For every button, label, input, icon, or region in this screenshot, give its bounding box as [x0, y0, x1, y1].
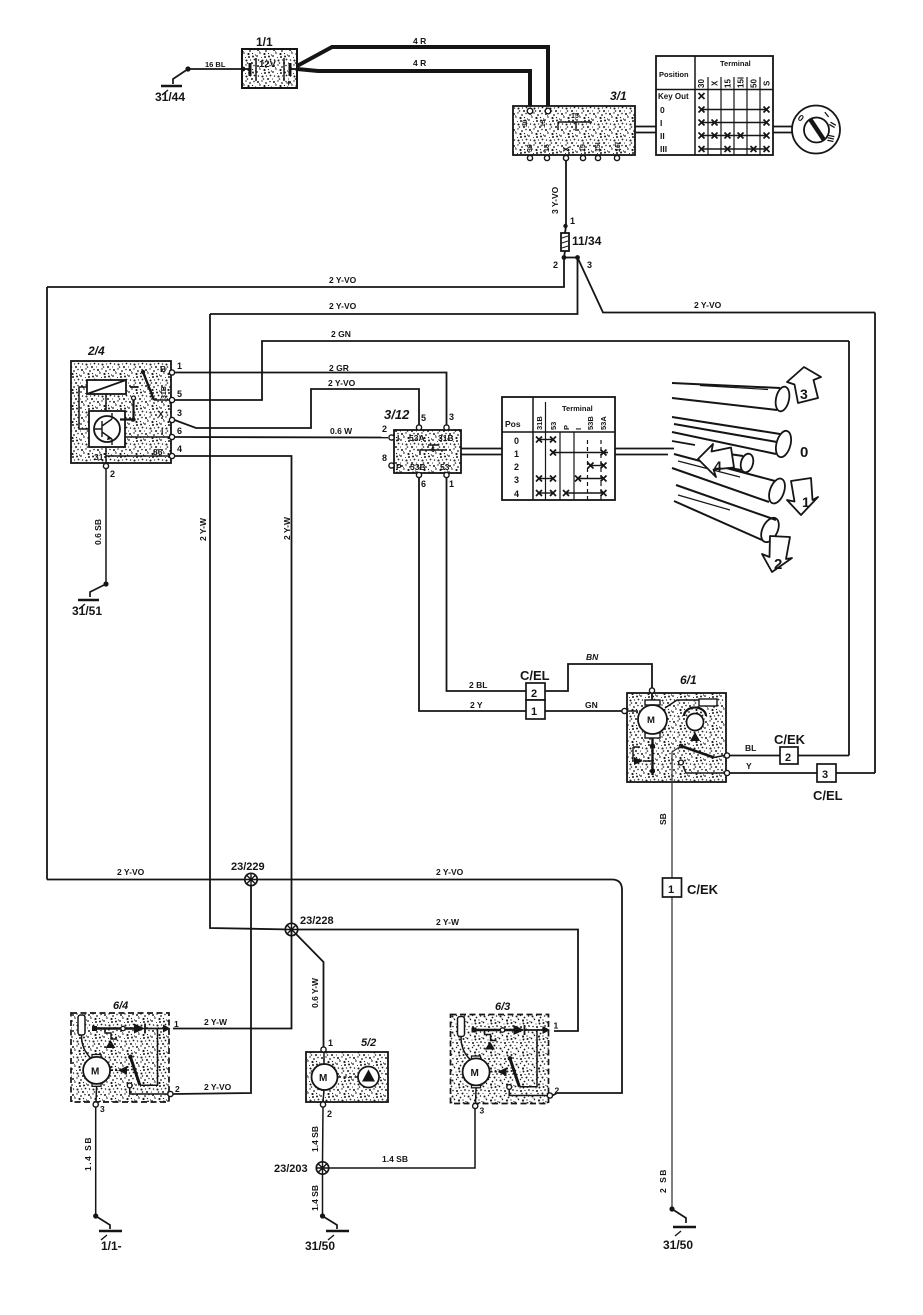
svg-text:1: 1	[531, 706, 537, 718]
arrow 3 up	[787, 367, 821, 403]
svg-text:P: P	[562, 425, 571, 430]
arrow 1 down	[787, 478, 818, 515]
wire 2 Y-VO node3 diagonal right section to x875	[578, 258, 876, 313]
wire Y 6/1 to C/EL 3	[730, 761, 818, 773]
svg-text:5: 5	[177, 389, 182, 399]
node 3 below fuse	[564, 255, 592, 270]
svg-text:8: 8	[382, 453, 387, 463]
wiper position table	[502, 397, 615, 500]
6/1 park switch	[679, 744, 684, 749]
junction 23/228	[285, 915, 333, 936]
svg-text:1: 1	[328, 1038, 333, 1048]
svg-text:1.4 SB: 1.4 SB	[310, 1126, 320, 1152]
wire 2 Y-VO 2/4 pin3 to 3/12 pin5	[175, 378, 420, 428]
svg-text:2 GR: 2 GR	[329, 363, 349, 373]
svg-text:1: 1	[174, 1019, 179, 1029]
6/1 diode arrow	[633, 747, 640, 761]
connector C/EK 2	[774, 732, 849, 764]
svg-text:1: 1	[668, 884, 674, 896]
svg-text:15: 15	[724, 79, 733, 88]
svg-text:II: II	[660, 131, 665, 141]
wire 2 Y-VO node3 left section to x210	[210, 258, 578, 315]
svg-text:1/1: 1/1	[256, 35, 273, 49]
arrow 2 down	[762, 536, 792, 573]
wire 0.6 SB 2/4 pin2 to ground	[93, 469, 106, 585]
svg-text:I: I	[574, 428, 583, 430]
6/1 park cam	[684, 708, 706, 716]
svg-text:15I: 15I	[615, 141, 622, 152]
connector C/EL 1	[526, 700, 545, 719]
wire 1.4 SB 23/203 to 6/3 pin3	[329, 1108, 475, 1168]
svg-text:4: 4	[177, 444, 182, 454]
svg-text:1: 1	[449, 479, 454, 489]
svg-text:15: 15	[580, 144, 587, 152]
2/4 pins	[169, 370, 174, 375]
svg-text:2 BL: 2 BL	[469, 680, 487, 690]
svg-text:3/12: 3/12	[384, 407, 410, 422]
wire 16 BL ground to battery	[188, 60, 242, 69]
wire GN C/EL1 to 6/1 left pin	[545, 700, 622, 711]
connector C/EL 3	[813, 764, 875, 803]
svg-text:X: X	[158, 409, 164, 419]
svg-text:16 BL: 16 BL	[205, 60, 226, 69]
svg-text:3: 3	[177, 408, 182, 418]
stalk position 2	[674, 485, 776, 540]
2/4 coil	[87, 380, 126, 394]
wire 2 GR 2/4 pin1 to 3/12 pin3	[175, 363, 447, 425]
svg-text:31B: 31B	[161, 386, 168, 399]
svg-text:2 Y-W: 2 Y-W	[198, 517, 208, 541]
svg-text:15: 15	[540, 119, 547, 127]
svg-text:30: 30	[522, 119, 529, 127]
wire table to key cylinder (double line)	[773, 127, 793, 133]
wire 2 Y-W 2/4 pin4 down bus x291	[175, 456, 293, 930]
relay 2/4	[71, 344, 182, 479]
svg-text:30: 30	[527, 144, 534, 152]
svg-text:C/EK: C/EK	[774, 732, 806, 747]
svg-text:2: 2	[327, 1109, 332, 1119]
bus 2 Y-VO vertical x875	[874, 313, 876, 774]
svg-text:31/44: 31/44	[155, 90, 185, 104]
svg-text:M: M	[91, 1067, 99, 1078]
svg-text:1.4 SB: 1.4 SB	[382, 1154, 408, 1164]
key cylinder icon	[792, 106, 840, 154]
junction 23/229	[231, 861, 265, 886]
wire 2 Y-VO horizontal y879	[47, 867, 622, 1096]
svg-text:2 Y-VO: 2 Y-VO	[436, 867, 464, 877]
wire 0.6 Y-W 23/228 to washer pump 5/2	[296, 934, 324, 1047]
svg-text:C/EL: C/EL	[520, 668, 550, 683]
wire 4 R lower battery to 3/1 pin 15	[297, 58, 530, 109]
svg-text:0.6 W: 0.6 W	[330, 426, 353, 436]
svg-text:53B: 53B	[410, 462, 426, 472]
svg-text:31/50: 31/50	[305, 1239, 335, 1253]
6/1 motor M	[651, 693, 653, 700]
ground 31/51	[72, 581, 109, 618]
svg-text:C/EK: C/EK	[687, 882, 719, 897]
svg-text:3/1: 3/1	[610, 89, 627, 103]
svg-text:1/1-: 1/1-	[101, 1239, 122, 1253]
ground 31/50 middle	[305, 1213, 349, 1253]
svg-text:23/228: 23/228	[300, 915, 334, 927]
wire pos table to stalk (double line)	[615, 449, 674, 455]
svg-text:3: 3	[514, 475, 519, 485]
svg-text:11/34: 11/34	[572, 234, 602, 248]
svg-text:2 Y-W: 2 Y-W	[204, 1017, 228, 1027]
svg-text:+: +	[286, 78, 291, 88]
svg-text:4: 4	[514, 489, 519, 499]
svg-text:53A: 53A	[599, 416, 608, 430]
svg-text:2/4: 2/4	[87, 344, 105, 358]
svg-text:2 Y-VO: 2 Y-VO	[204, 1082, 232, 1092]
svg-text:2 Y-W: 2 Y-W	[436, 917, 460, 927]
2/4 contact arm	[141, 370, 145, 374]
svg-text:1.4 SB: 1.4 SB	[310, 1185, 320, 1211]
svg-text:6: 6	[177, 426, 182, 436]
svg-text:31B: 31B	[438, 433, 454, 443]
svg-text:B: B	[160, 364, 166, 374]
svg-text:53B: 53B	[586, 416, 595, 430]
svg-text:5: 5	[421, 413, 426, 423]
3/1 bottom pins	[527, 155, 532, 160]
svg-text:2: 2	[110, 469, 115, 479]
svg-text:III: III	[660, 144, 667, 154]
svg-text:6/1: 6/1	[680, 673, 697, 687]
svg-text:Terminal: Terminal	[562, 404, 593, 413]
svg-text:2 Y-VO: 2 Y-VO	[117, 867, 145, 877]
wire 3 Y-VO from 3/1 pin X to fuse	[550, 161, 575, 234]
washer pump 5/2	[306, 1037, 388, 1119]
bus 2 Y-W vertical x210	[198, 314, 291, 930]
svg-text:2: 2	[514, 462, 519, 472]
svg-text:2 GN: 2 GN	[331, 329, 351, 339]
svg-text:3: 3	[100, 1104, 105, 1114]
2/4 transistor	[89, 411, 125, 447]
svg-text:5/2: 5/2	[361, 1037, 376, 1049]
svg-text:3: 3	[449, 412, 454, 422]
svg-text:C/EL: C/EL	[813, 788, 843, 803]
wire 3/12 to pos table (double line)	[461, 449, 502, 455]
svg-text:0: 0	[800, 444, 808, 461]
svg-text:53: 53	[440, 462, 450, 472]
svg-text:2: 2	[774, 556, 782, 573]
ground 31/50 right	[663, 1206, 696, 1252]
svg-text:50: 50	[750, 79, 759, 88]
svg-text:53: 53	[549, 422, 558, 430]
wire 2 Y 3/12 pin6 to connector C/EL 1	[419, 478, 526, 712]
ignition switch 3/1	[513, 89, 635, 161]
svg-text:86: 86	[153, 447, 163, 457]
wire 1.4 SB 5/2 pin2 to junction 23/203	[310, 1107, 323, 1162]
svg-text:X: X	[562, 146, 571, 152]
svg-text:I: I	[660, 118, 662, 128]
svg-text:0: 0	[660, 105, 665, 115]
svg-text:SB: SB	[658, 813, 668, 825]
wire 4 R upper battery to 3/1 pin 30	[297, 36, 548, 109]
svg-text:3: 3	[822, 769, 828, 781]
svg-text:Key Out: Key Out	[658, 92, 689, 101]
wire 0.6 W 2/4 pin6 to 3/12 pin2	[175, 426, 389, 438]
svg-text:6: 6	[421, 479, 426, 489]
2/4 link	[132, 396, 136, 400]
stalk position 0	[672, 417, 780, 454]
svg-text:1: 1	[802, 494, 810, 510]
stalk position 1	[672, 454, 775, 502]
wiper switch 3/12	[382, 407, 461, 489]
svg-text:2: 2	[553, 260, 558, 270]
wire 2 Y-W 23/228 to 6/3 pin1	[298, 917, 578, 1031]
svg-text:23/229: 23/229	[231, 861, 265, 873]
svg-text:2: 2	[175, 1084, 180, 1094]
svg-text:30: 30	[697, 79, 706, 88]
svg-text:2 Y-VO: 2 Y-VO	[329, 301, 357, 311]
stalk position 3	[672, 383, 780, 410]
svg-text:15I: 15I	[595, 142, 602, 152]
svg-text:0.6 SB: 0.6 SB	[93, 519, 103, 545]
svg-text:BN: BN	[586, 652, 599, 662]
svg-text:31/51: 31/51	[72, 604, 102, 618]
svg-text:3: 3	[800, 386, 808, 402]
wire BL 6/1 to C/EK 2	[730, 743, 781, 756]
svg-text:2 Y: 2 Y	[470, 700, 483, 710]
wiper motor 6/1	[622, 673, 730, 782]
headlamp wiper motor 6/4	[71, 1013, 180, 1114]
svg-text:23/203: 23/203	[274, 1163, 308, 1175]
svg-text:0: 0	[514, 436, 519, 446]
bus 2 GN vertical x849	[848, 341, 850, 756]
svg-text:31/50: 31/50	[663, 1238, 693, 1252]
connector C/EK 1	[663, 878, 719, 897]
svg-text:53A: 53A	[409, 433, 425, 443]
ignition position table	[656, 56, 773, 155]
svg-text:31: 31	[94, 452, 104, 462]
svg-text:4: 4	[714, 458, 722, 474]
wire 1.4 SB 23/203 down to ground	[310, 1174, 323, 1216]
svg-text:P: P	[396, 462, 402, 472]
fuse 11/34	[561, 233, 602, 251]
svg-text:4 R: 4 R	[413, 58, 426, 68]
svg-text:2: 2	[785, 752, 791, 764]
svg-text:4 R: 4 R	[413, 36, 426, 46]
svg-text:X: X	[711, 80, 720, 86]
svg-text:2: 2	[382, 424, 387, 434]
battery 1/1	[241, 35, 297, 88]
headlamp wiper motor 6/3	[451, 1015, 560, 1116]
svg-text:0.6 Y-W: 0.6 Y-W	[310, 977, 320, 1008]
6/1 motor lead down	[651, 738, 653, 775]
svg-text:Terminal: Terminal	[720, 59, 751, 68]
svg-text:1: 1	[570, 216, 575, 226]
wire 6/4 pin3 to ground	[83, 1107, 96, 1216]
svg-text:I: I	[161, 426, 163, 436]
svg-text:12V: 12V	[259, 59, 277, 70]
wire BN C/EL2 to 6/1 motor top	[545, 652, 652, 691]
svg-text:2 Y-VO: 2 Y-VO	[328, 378, 356, 388]
svg-text:Position: Position	[659, 70, 689, 79]
svg-text:2 Y-VO: 2 Y-VO	[694, 300, 722, 310]
svg-text:1: 1	[514, 449, 519, 459]
arrow 4 left	[698, 444, 734, 477]
svg-text:2 Y-W: 2 Y-W	[282, 516, 292, 540]
node 2 below fuse	[553, 251, 566, 270]
wire 3/1 to position table (double line)	[635, 127, 656, 133]
wire 2 GN horizontal y341	[175, 329, 850, 400]
svg-text:I: I	[397, 433, 399, 443]
svg-text:2: 2	[531, 688, 537, 700]
ground 1/1-	[93, 1213, 122, 1253]
svg-text:Y: Y	[746, 761, 752, 771]
svg-text:M: M	[319, 1073, 327, 1084]
svg-text:6: 6	[431, 447, 435, 454]
wire 23/229 down to 6/4 pin2	[173, 886, 251, 1094]
svg-text:2 Y-VO: 2 Y-VO	[329, 275, 357, 285]
svg-text:15: 15	[544, 144, 551, 152]
svg-text:31B: 31B	[535, 416, 544, 430]
svg-text:3: 3	[587, 260, 592, 270]
wire 2 BL 3/12 pin1 to connector C/EL 2	[447, 478, 527, 692]
stalk knob 4	[713, 452, 743, 470]
connector C/EL 2	[520, 668, 550, 700]
svg-text:Pos: Pos	[505, 419, 521, 429]
svg-text:3 Y-VO: 3 Y-VO	[550, 186, 560, 214]
svg-text:1: 1	[177, 361, 182, 371]
svg-text:15: 15	[571, 113, 579, 120]
wire SB 6/1 down	[658, 746, 681, 1209]
svg-text:GN: GN	[585, 700, 598, 710]
svg-text:M: M	[647, 715, 655, 726]
svg-text:15I: 15I	[737, 77, 746, 88]
svg-text:1.4 SB: 1.4 SB	[83, 1136, 93, 1171]
svg-text:2 SB: 2 SB	[658, 1168, 668, 1193]
wire 2 Y-VO node2 to left bus	[47, 258, 564, 288]
svg-text:6/4: 6/4	[113, 1000, 128, 1012]
wire 2 Y-W to 6/4 pin1	[173, 930, 292, 1029]
svg-text:6/3: 6/3	[495, 1001, 510, 1013]
left bus 2 Y-VO vertical x47	[46, 287, 48, 880]
ground 31/44	[155, 66, 191, 104]
junction 23/203	[274, 1162, 329, 1175]
svg-text:BL: BL	[745, 743, 756, 753]
svg-text:S: S	[763, 80, 772, 86]
wiper stalk lever drawing	[672, 383, 794, 545]
